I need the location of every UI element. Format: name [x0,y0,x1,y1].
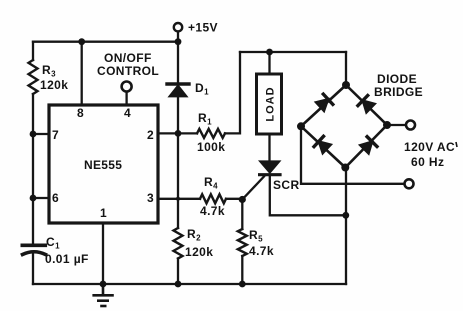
node pin8/rail junction [78,38,85,45]
resistor R4 [200,194,226,203]
node gate junction [239,196,246,203]
svg-text:DIODE: DIODE [377,72,417,86]
wire pin3 to R4 [158,198,200,200]
svg-text:100k: 100k [197,140,225,154]
svg-text:ON/OFF: ON/OFF [104,51,152,65]
bridge diode D4 bottom-left [314,136,331,153]
wire R1 to top rail corner [225,52,240,133]
capacitor C1 [22,245,45,254]
node pin7 junction [30,131,37,138]
wire right AC terminal [387,124,406,126]
node load/top-rail junction [266,49,273,56]
terminal +15V [174,23,182,31]
svg-text:120V AC: 120V AC [404,140,455,154]
wire left vertical upper (rail to R3) [32,42,34,60]
terminal AC right [406,121,415,130]
label 120V AC 60Hz [456,142,457,147]
svg-text:6: 6 [52,191,59,205]
svg-text:8: 8 [77,106,84,120]
wire pin6 stub [33,197,49,199]
wire bridge top vertical [345,52,347,85]
resistor R2 [174,228,183,258]
wire load to SCR [268,134,270,162]
wire bottom rail [33,283,346,285]
wire R5 to bottom rail [241,256,243,284]
wire gate node down to R5 [241,200,243,230]
svg-text:120k: 120k [40,78,68,92]
svg-text:R3: R3 [42,63,56,79]
svg-text:LOAD: LOAD [265,86,277,121]
wire left vertical R3 to C1 [32,94,34,244]
wire pin1 ground drop [102,223,104,284]
node bridge right [383,121,391,129]
ground [94,284,113,306]
bridge diode D2 top-left [316,94,333,111]
svg-text:CONTROL: CONTROL [97,64,159,78]
svg-text:2: 2 [147,128,154,142]
bridge diode D5 bottom-right [360,137,377,154]
node pin6 junction [30,195,37,202]
wire top rail [240,51,346,53]
node pin2/D1 junction [175,130,182,137]
wire R4 to gate node [226,198,242,200]
svg-text:SCR: SCR [273,178,300,192]
wire left node to lower AC terminal [301,126,404,184]
wire SCR cathode [270,176,346,215]
resistor R5 [238,229,247,256]
svg-text:R1: R1 [198,111,212,127]
node +15V junction [175,38,182,45]
resistor R1 [197,129,225,138]
node ground junction [100,281,107,288]
resistor R3 [29,60,38,94]
svg-text:4: 4 [124,106,131,120]
IC U1 NE555 box [49,105,158,223]
diode bridge diamond [301,85,387,168]
node bridge bottom [341,164,349,172]
bridge diode D3 top-right [358,96,375,113]
terminal AC lower [405,179,414,188]
node R5/rail junction [239,281,246,288]
wire pin8 vertical [81,42,83,105]
svg-text:D1: D1 [195,81,209,97]
svg-text:0.01 µF: 0.01 µF [45,252,89,266]
svg-text:60 Hz: 60 Hz [411,155,444,169]
svg-text:4.7k: 4.7k [249,244,274,258]
svg-text:R4: R4 [204,175,218,191]
svg-text:7: 7 [52,128,59,142]
wire pin7 stub [33,133,49,135]
load box [257,74,282,134]
svg-text:4.7k: 4.7k [200,204,225,218]
wire +15V drop [177,32,179,83]
wire bridge bottom vertical [345,168,347,285]
node R2 wire crossing blob [176,197,180,201]
wire pin2 node down to R2 [177,133,179,228]
svg-text:120k: 120k [185,245,213,259]
svg-text:1: 1 [100,206,107,220]
node bridge top [342,81,350,89]
node cathode/bridge junction [342,212,349,219]
svg-text:R5: R5 [249,228,263,244]
svg-text:3: 3 [147,191,154,205]
node bridge left [297,122,305,130]
terminal ON/OFF control [122,82,132,92]
node R2/rail junction [175,281,182,288]
svg-text:NE555: NE555 [84,158,122,172]
wire C1 to bottom rail [32,254,34,285]
SCR Q1 [242,162,280,200]
wire load stub top [268,52,270,74]
svg-text:+15V: +15V [188,21,218,35]
svg-text:BRIDGE: BRIDGE [374,85,423,99]
wire top-left rail [33,41,178,43]
wire pin2 to R1 [158,132,197,134]
wire pin4 stub [125,92,127,105]
svg-text:C1: C1 [46,235,60,251]
wire R2 to bottom rail [177,259,179,285]
wire D1 to pin2 node [177,96,179,133]
diode D1 [167,84,189,96]
svg-text:R2: R2 [187,227,201,243]
